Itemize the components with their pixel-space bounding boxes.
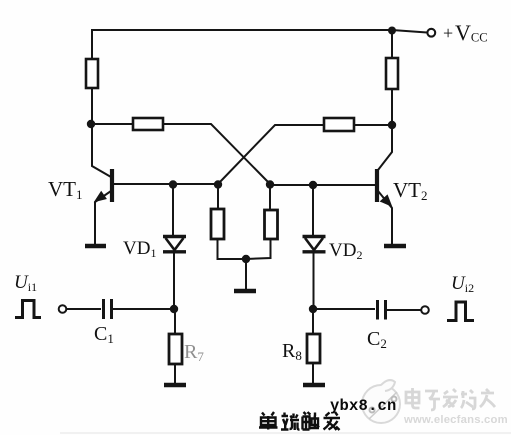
svg-text:VT2: VT2 xyxy=(393,178,428,203)
watermark globe xyxy=(362,380,400,423)
resistor R8 xyxy=(307,334,320,363)
wire input to C1 xyxy=(67,308,102,310)
node base VT2 / VD2 xyxy=(309,181,317,189)
wire collector B to coupling resistor xyxy=(354,124,392,126)
svg-text:VD2: VD2 xyxy=(329,240,362,262)
svg-text:VCC: VCC xyxy=(455,20,488,45)
wire C2 to terminal xyxy=(387,309,421,311)
ground (R8) xyxy=(303,383,325,388)
terminal input left xyxy=(59,305,67,313)
watermark chinese 电子发烧友 (gray) xyxy=(406,388,495,410)
node C1/R7/VD1 xyxy=(170,305,178,313)
resistor coupling right xyxy=(324,118,354,131)
capacitor C2 xyxy=(378,300,386,320)
svg-text:www.elecfans.com: www.elecfans.com xyxy=(403,414,508,426)
node center bias xyxy=(242,255,250,263)
ground (R7) xyxy=(164,383,186,388)
svg-text:VT1: VT1 xyxy=(48,177,83,202)
node base VT1 / VD1 xyxy=(169,180,177,188)
wire to diagonal xyxy=(163,124,270,184)
wire right collector drop xyxy=(391,31,393,125)
node C2/R8/VD2 xyxy=(309,305,317,313)
resistor Rc2 (top right) xyxy=(386,58,398,89)
wire to center ground xyxy=(245,259,247,289)
ground center xyxy=(234,289,256,294)
wire collector A to coupling resistor xyxy=(91,123,133,125)
svg-text:R8: R8 xyxy=(282,340,302,363)
wire node to R7 xyxy=(174,309,176,383)
wire top rail xyxy=(91,30,427,33)
wire node to R8 xyxy=(312,309,314,383)
wire to diagonal xyxy=(218,125,324,184)
resistor mid right xyxy=(265,210,278,239)
node B (VT2 collector) xyxy=(388,121,396,129)
terminal +Vcc xyxy=(427,29,435,37)
node base VT1 / R mid left xyxy=(214,180,222,188)
wire mid-right resistor xyxy=(246,184,271,259)
svg-text:ybx8.cn: ybx8.cn xyxy=(330,397,397,415)
触 xyxy=(303,412,320,430)
diode VD2 xyxy=(303,185,326,309)
node base VT2 / R mid right xyxy=(266,180,274,188)
svg-text:+: + xyxy=(443,23,453,43)
端 xyxy=(281,413,300,431)
pulse symbol left xyxy=(15,301,41,318)
单 xyxy=(259,412,278,430)
capacitor C1 xyxy=(104,299,112,319)
caption 单端触发 (drawn strokes) xyxy=(259,412,340,430)
发 xyxy=(324,412,341,430)
node top right xyxy=(388,27,396,35)
wire C1 to node xyxy=(113,308,174,310)
svg-text:C2: C2 xyxy=(367,328,387,351)
bottom scan artifact line xyxy=(60,432,511,434)
ground (VT2 emitter) xyxy=(384,244,406,249)
pulse symbol right xyxy=(447,302,474,321)
resistor coupling left xyxy=(133,118,163,130)
ground (VT1 emitter) xyxy=(85,244,106,249)
resistor mid left xyxy=(211,209,224,239)
diode VD1 xyxy=(163,185,186,309)
wire left collector drop xyxy=(91,30,93,124)
svg-text:VD1: VD1 xyxy=(123,238,156,260)
terminal input right xyxy=(421,306,429,314)
wire mid-left resistor xyxy=(218,184,247,259)
transistor VT2 xyxy=(270,125,392,244)
wire node to C2 xyxy=(313,308,375,310)
resistor Rc1 (top left) xyxy=(86,59,98,88)
svg-text:C1: C1 xyxy=(94,323,114,346)
svg-text:Ui2: Ui2 xyxy=(451,273,474,295)
svg-text:R7: R7 xyxy=(184,341,204,364)
resistor R7 xyxy=(169,334,182,364)
transistor VT1 xyxy=(92,124,218,244)
svg-text:Ui1: Ui1 xyxy=(14,272,37,294)
node A (VT1 collector) xyxy=(87,120,95,128)
